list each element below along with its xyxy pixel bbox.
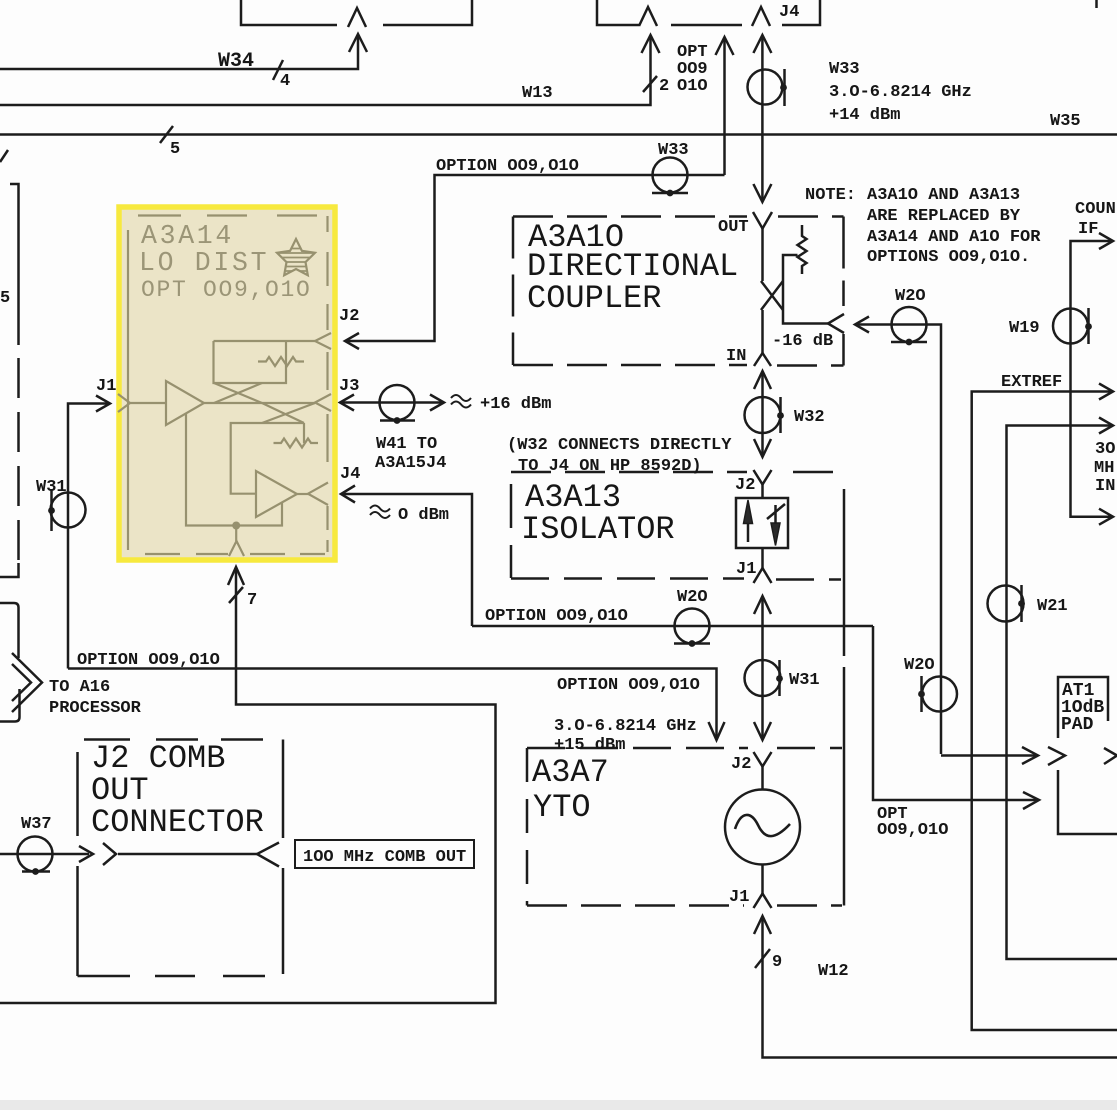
- slash left margin: [0, 150, 8, 162]
- J2 comb box top edge: [84, 738, 263, 741]
- isolator U1 body: [736, 498, 788, 548]
- svg-text:O dBm: O dBm: [398, 506, 449, 525]
- connector W20 tick top: [891, 341, 927, 344]
- wire counter IF line: [1071, 241, 1113, 517]
- wire W20 from coupler -16dB port: [855, 325, 941, 755]
- arrowhead pad lower: [1023, 792, 1039, 809]
- svg-text:J4: J4: [779, 3, 799, 22]
- A3A13 box bottom edge: [511, 579, 841, 580]
- svg-text:PROCESSOR: PROCESSOR: [49, 699, 142, 718]
- connector A3A14 J2: [315, 333, 331, 349]
- svg-text:+16 dBm: +16 dBm: [480, 395, 551, 414]
- svg-text:OPTION OO9,O1O: OPTION OO9,O1O: [485, 607, 628, 626]
- svg-text:J1: J1: [736, 560, 756, 579]
- svg-text:W37: W37: [21, 815, 52, 834]
- processor interface box upper: [0, 603, 19, 658]
- connector on box top-left: [348, 8, 366, 27]
- arrowhead EXTREF right: [1099, 384, 1113, 400]
- svg-text:NOTE:: NOTE:: [805, 186, 856, 205]
- arrowhead W32 down: [754, 439, 771, 457]
- arrowhead option mid down: [709, 722, 725, 740]
- svg-text:TO A16: TO A16: [49, 678, 110, 697]
- J2 comb box right edge: [282, 740, 285, 975]
- svg-text:W2O: W2O: [677, 588, 708, 607]
- svg-text:CONNECTOR: CONNECTOR: [91, 804, 264, 841]
- wire J2 to isolator: [761, 485, 764, 499]
- svg-text:W32: W32: [794, 408, 825, 427]
- label box 100 MHz COMB OUT: [295, 840, 474, 868]
- svg-text:5: 5: [170, 140, 180, 159]
- svg-text:EXTREF: EXTREF: [1001, 373, 1062, 392]
- svg-text:A3A1O AND A3A13: A3A1O AND A3A13: [867, 186, 1020, 205]
- slash 4 on W34: [273, 60, 283, 80]
- dot W19: [1085, 323, 1092, 330]
- A3A14 box top edge: [138, 214, 317, 216]
- A3A7 box bottom edge: [527, 904, 842, 907]
- arrowhead W12 up: [754, 916, 771, 934]
- svg-text:IN: IN: [726, 347, 746, 366]
- box top-left (partial block): [241, 0, 472, 25]
- svg-text:ISOLATOR: ISOLATOR: [521, 511, 675, 548]
- arrowhead W20 left: [855, 317, 869, 333]
- svg-text:-16 dB: -16 dB: [772, 332, 833, 351]
- wire OPTION 009,010 mid horizontal: [68, 669, 717, 739]
- connector W20 circle lower: [922, 677, 957, 712]
- amplifier A2: [256, 471, 297, 517]
- arrowhead J3 right: [430, 395, 444, 411]
- dot W41: [394, 417, 401, 424]
- connector W31 left bar: [50, 489, 53, 531]
- crossover X2: [262, 403, 315, 423]
- svg-text:OPTION OO9,O1O: OPTION OO9,O1O: [436, 157, 579, 176]
- off-page chevron TO A16: [12, 653, 42, 712]
- coupler crossover X: [761, 281, 783, 310]
- arrowhead J3 left: [340, 395, 354, 411]
- svg-text:J1: J1: [729, 888, 749, 907]
- isolator blocked arrow: [774, 505, 777, 523]
- A3A14 box right edge: [326, 216, 328, 552]
- svg-text:W12: W12: [818, 962, 849, 981]
- connector W19 bar: [1087, 308, 1090, 344]
- YTO oscillator circle: [725, 790, 800, 865]
- amplifier A1: [166, 381, 204, 425]
- arrowhead W31 up: [754, 596, 771, 614]
- svg-text:OPT OO9,O1O: OPT OO9,O1O: [141, 277, 312, 303]
- connector W20 circle top: [892, 307, 927, 342]
- slash 9 on W12: [755, 949, 770, 968]
- dot W31 left: [48, 507, 55, 514]
- A3A13 box left edge: [510, 484, 513, 578]
- svg-text:3.O-6.8214 GHz: 3.O-6.8214 GHz: [554, 717, 697, 736]
- connector AT1 pad input: [1048, 747, 1065, 765]
- wire J2 to YTO: [761, 767, 764, 790]
- wire A3A10 main lower: [761, 310, 764, 354]
- svg-text:3O: 3O: [1095, 440, 1115, 459]
- svg-text:4: 4: [280, 72, 290, 91]
- arrowhead 300 MHz right: [1099, 418, 1113, 434]
- arrowhead 21.4 MHz right: [1099, 509, 1113, 525]
- connector W21 bar: [1020, 585, 1023, 622]
- svg-text:(W32 CONNECTS DIRECTLY: (W32 CONNECTS DIRECTLY: [507, 436, 732, 455]
- coupled loop rect upper: [214, 341, 287, 383]
- wire W12: [763, 918, 1117, 1058]
- svg-text:J1: J1: [96, 377, 116, 396]
- svg-text:OPTIONS OO9,O1O.: OPTIONS OO9,O1O.: [867, 248, 1030, 267]
- squiggle +16 dBm: [451, 395, 471, 408]
- connector W31 circle left: [51, 493, 86, 528]
- svg-text:+14 dBm: +14 dBm: [829, 106, 900, 125]
- arrowhead W34 up: [349, 34, 367, 52]
- coupled loop rect lower: [231, 423, 304, 494]
- slash 5 on W35: [160, 126, 173, 143]
- A3A13 box top edge: [511, 471, 747, 474]
- wire EXTREF: [972, 392, 1117, 1031]
- AT1 pad box: [1058, 677, 1117, 834]
- wire A3A14 J3 both-ends arrow: [341, 401, 443, 404]
- wire comb out: [118, 853, 257, 856]
- resistor A3A10 termination: [798, 225, 807, 274]
- wire W37 comb out: [0, 853, 89, 856]
- resistor R1: [258, 357, 304, 366]
- svg-text:A3A15J4: A3A15J4: [375, 454, 446, 473]
- svg-text:3.O-6.8214 GHz: 3.O-6.8214 GHz: [829, 83, 972, 102]
- connector -16dB port: [828, 314, 844, 333]
- arrowhead W33 down: [753, 184, 771, 202]
- arrowhead AT1 pad output right: [1104, 748, 1117, 764]
- box top-right J4 (partial block): [597, 0, 820, 25]
- wire A3A10 main upper: [761, 229, 764, 282]
- svg-text:TO J4 ON HP 8592D): TO J4 ON HP 8592D): [518, 457, 702, 476]
- wire from A3A14 bottom (slash 7): [0, 567, 496, 1003]
- wire amp2 to J4: [297, 493, 309, 495]
- connector A3A14 J1 male: [118, 394, 130, 412]
- wire junction to bottom port: [235, 526, 237, 542]
- A3A7 box left edge: [526, 748, 529, 906]
- wire W32 vertical: [761, 373, 764, 455]
- arrowhead into A3A14 J1: [96, 396, 110, 412]
- svg-text:9: 9: [772, 953, 782, 972]
- connector W19 circle: [1053, 309, 1088, 344]
- svg-text:W41 TO: W41 TO: [376, 435, 437, 454]
- svg-text:OUT: OUT: [718, 218, 749, 237]
- wire W33 vertical: [761, 37, 764, 200]
- wire isolator to J1: [761, 548, 764, 568]
- processor interface box lower: [0, 689, 20, 722]
- svg-text:OPTION OO9,O1O: OPTION OO9,O1O: [77, 651, 220, 670]
- svg-text:COUN: COUN: [1075, 200, 1116, 219]
- arrowhead A3A14 bottom up: [228, 567, 244, 585]
- A3A13 and A3A7 shared right edge: [843, 489, 846, 906]
- isolator forward arrow: [747, 522, 750, 542]
- dot W33 top: [780, 84, 787, 91]
- A3A14 box left edge: [127, 230, 129, 550]
- svg-text:ARE REPLACED BY: ARE REPLACED BY: [867, 207, 1021, 226]
- connector W41 circle: [380, 385, 415, 420]
- svg-text:A3A14 AND A1O FOR: A3A14 AND A1O FOR: [867, 228, 1041, 247]
- svg-text:COUPLER: COUPLER: [527, 280, 661, 317]
- wire main through line: [204, 402, 315, 404]
- dot W20 mid: [689, 640, 696, 647]
- wire J1 to amp: [130, 402, 166, 404]
- svg-text:A3A7: A3A7: [532, 754, 609, 791]
- slash 7: [229, 587, 243, 603]
- svg-text:W33: W33: [658, 141, 689, 160]
- wire A3A14 J4 out: [342, 494, 472, 626]
- wire W13: [0, 37, 651, 105]
- wire OPTION 009,010 riser to top box: [723, 39, 726, 175]
- arrowhead into AT1 pad: [1022, 747, 1038, 764]
- arrowhead W31 down: [754, 722, 771, 740]
- svg-text:7: 7: [247, 591, 257, 610]
- wire OPT 009,010 to pad lower: [873, 626, 1037, 800]
- wire 300 MHz line: [1007, 426, 1117, 960]
- wire YTO to J1: [761, 865, 764, 894]
- A3A10 box bottom edge: [513, 364, 844, 367]
- connector A3A13 J1: [754, 568, 772, 583]
- wire W20 mid from A3A14 J4: [472, 625, 873, 628]
- arrowhead counter IF right: [1099, 233, 1113, 249]
- svg-text:YTO: YTO: [533, 789, 591, 826]
- A3A7 box top edge: [527, 747, 842, 750]
- arrowhead W37 right: [79, 846, 93, 862]
- dot W33 lower: [667, 190, 674, 197]
- svg-text:MH: MH: [1094, 459, 1114, 478]
- connector W32 circle: [745, 397, 781, 433]
- J2 comb box bottom edge: [78, 975, 266, 978]
- svg-text:W34: W34: [218, 50, 254, 73]
- arrowhead W13 up: [642, 35, 660, 53]
- wire bias bus: [186, 414, 282, 526]
- A3A10 box right edge: [842, 217, 845, 366]
- connector W33 lower tick: [652, 192, 688, 195]
- connector W20 tick mid: [674, 642, 710, 645]
- arrowhead OPTION riser up: [716, 37, 734, 55]
- connector A3A14 J3: [315, 394, 331, 411]
- connector A3A14 J4: [308, 483, 328, 506]
- svg-text:J2: J2: [731, 755, 751, 774]
- connector W37 circle: [18, 837, 53, 872]
- wire W31 vertical: [761, 598, 764, 738]
- isolator blocked slash: [767, 504, 785, 519]
- svg-text:LO DIST: LO DIST: [139, 248, 269, 278]
- svg-text:W21: W21: [1037, 597, 1068, 616]
- svg-text:J3: J3: [339, 377, 359, 396]
- A3A10 box top edge: [513, 215, 844, 218]
- connector A3A7 J1: [754, 894, 772, 909]
- connector W20 lower bar: [920, 676, 923, 712]
- dashed block left margin: [10, 184, 19, 345]
- connector A3A13 J2: [754, 470, 772, 485]
- svg-text:W13: W13: [522, 84, 553, 103]
- svg-text:2: 2: [659, 77, 669, 96]
- svg-text:1OO MHz COMB OUT: 1OO MHz COMB OUT: [303, 848, 466, 867]
- svg-text:IN: IN: [1095, 477, 1115, 496]
- svg-text:O1O: O1O: [677, 77, 708, 96]
- connector W41 tick: [380, 419, 415, 422]
- svg-text:W31: W31: [789, 671, 820, 690]
- svg-text:J2: J2: [339, 307, 359, 326]
- svg-text:W35: W35: [1050, 112, 1081, 131]
- svg-text:W2O: W2O: [904, 656, 935, 675]
- wire J2 line: [214, 340, 316, 342]
- A3A14 box bottom edge: [145, 553, 325, 555]
- YTO sine wave: [735, 815, 790, 836]
- connector W21 circle: [988, 586, 1024, 622]
- A3A10 box left edge: [512, 217, 515, 366]
- connector W32 bar: [779, 397, 782, 433]
- svg-text:W31: W31: [36, 478, 67, 497]
- connector W33 circle top: [748, 70, 783, 105]
- connector box top-right port 1: [639, 7, 657, 26]
- connector A3A10 IN: [754, 353, 771, 366]
- dot W21: [1018, 600, 1025, 607]
- connector W33 bar: [783, 69, 786, 106]
- wire coupled port bracket: [783, 255, 828, 324]
- star stamp: [277, 239, 315, 275]
- connector A3A10 OUT: [753, 212, 772, 229]
- connector A3A7 J2: [754, 752, 772, 767]
- arrowhead into A3A14 J2: [345, 333, 359, 349]
- svg-text:J2: J2: [735, 476, 755, 495]
- resistor R2: [274, 439, 319, 448]
- crossover X1: [214, 383, 262, 403]
- wire OPTION 009,010 top to A3A14 J2: [346, 175, 725, 341]
- svg-text:J4: J4: [340, 465, 360, 484]
- top right corner partial edge: [1095, 0, 1098, 8]
- dot W37: [32, 868, 39, 875]
- slash 2 on W13 riser: [643, 76, 657, 92]
- arrowhead W33 up: [753, 35, 771, 53]
- dot W20 lower: [918, 691, 925, 698]
- svg-text:5: 5: [0, 289, 10, 308]
- bottom grey band: [0, 1100, 1117, 1110]
- squiggle 0 dBm: [370, 506, 390, 519]
- svg-text:W2O: W2O: [895, 287, 926, 306]
- wire J1 feed to A3A14: [68, 404, 110, 669]
- connector W37 tick: [22, 870, 50, 873]
- dot W32: [777, 412, 784, 419]
- A3A14 highlighted block: [119, 207, 335, 560]
- svg-text:PAD: PAD: [1061, 715, 1094, 735]
- connector W33 circle lower: [653, 158, 688, 193]
- connector W20 circle mid: [675, 609, 710, 644]
- dot W20 top: [906, 339, 913, 346]
- svg-text:W19: W19: [1009, 319, 1040, 338]
- svg-text:OPTION OO9,O1O: OPTION OO9,O1O: [557, 676, 700, 695]
- svg-text:OO9,O1O: OO9,O1O: [877, 821, 948, 840]
- arrowhead W32 up: [754, 371, 771, 389]
- arrowhead J4 left: [341, 486, 355, 503]
- connector comb out female: [257, 843, 279, 867]
- dot W31: [776, 675, 783, 682]
- svg-text:IF: IF: [1078, 220, 1098, 239]
- connector J2 comb male: [103, 843, 116, 865]
- svg-text:A3A14: A3A14: [141, 221, 234, 251]
- connector W31 bar: [778, 660, 781, 696]
- J2 comb box left edge: [76, 752, 79, 976]
- wire W35: [0, 133, 1117, 136]
- wire into AT1 pad: [941, 754, 1036, 757]
- svg-text:W33: W33: [829, 60, 860, 79]
- connector W31 circle: [745, 660, 781, 696]
- connector A3A14 bottom port: [229, 541, 244, 556]
- svg-text:+15 dBm: +15 dBm: [554, 736, 625, 755]
- wire W34: [0, 35, 358, 69]
- connector J4 box top-right port 2: [752, 7, 770, 26]
- junction dot bias: [232, 522, 240, 530]
